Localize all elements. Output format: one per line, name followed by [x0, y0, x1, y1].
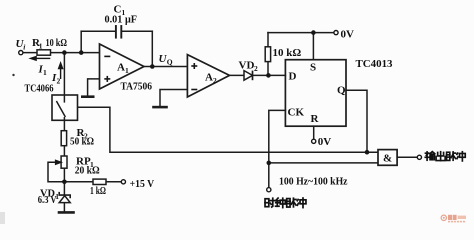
svg-text:100 Hz~100 kHz: 100 Hz~100 kHz — [279, 176, 348, 188]
svg-text:1: 1 — [125, 66, 129, 75]
svg-text:S: S — [310, 61, 316, 73]
svg-text:50 kΩ: 50 kΩ — [70, 136, 94, 148]
svg-text:D: D — [289, 71, 297, 83]
svg-text:TC4013: TC4013 — [356, 58, 393, 70]
svg-text:+15 V: +15 V — [130, 178, 155, 190]
svg-text:0.01 μF: 0.01 μF — [105, 14, 138, 26]
svg-text:2: 2 — [213, 76, 217, 85]
svg-text:TA7506: TA7506 — [121, 81, 153, 93]
svg-text:VD: VD — [239, 60, 255, 72]
svg-text:&: & — [383, 153, 392, 165]
svg-text:10 kΩ: 10 kΩ — [273, 47, 302, 59]
svg-text:2: 2 — [254, 64, 258, 73]
svg-text:1: 1 — [43, 68, 47, 77]
svg-text:1: 1 — [39, 42, 43, 51]
svg-text:TC4066: TC4066 — [25, 83, 54, 95]
svg-text:A: A — [117, 62, 125, 74]
svg-text:6.3 V: 6.3 V — [38, 194, 57, 206]
svg-text:2: 2 — [57, 77, 61, 86]
svg-text:R: R — [311, 113, 320, 125]
svg-text:1 kΩ: 1 kΩ — [90, 185, 106, 197]
svg-text:A: A — [205, 72, 213, 84]
svg-text:Q: Q — [167, 58, 173, 67]
svg-text:0V: 0V — [318, 136, 332, 148]
svg-text:Q: Q — [337, 84, 346, 96]
svg-text:20 kΩ: 20 kΩ — [75, 165, 100, 177]
svg-text:CK: CK — [288, 107, 305, 119]
svg-text:0V: 0V — [341, 29, 355, 41]
svg-text:10 kΩ: 10 kΩ — [46, 37, 68, 49]
